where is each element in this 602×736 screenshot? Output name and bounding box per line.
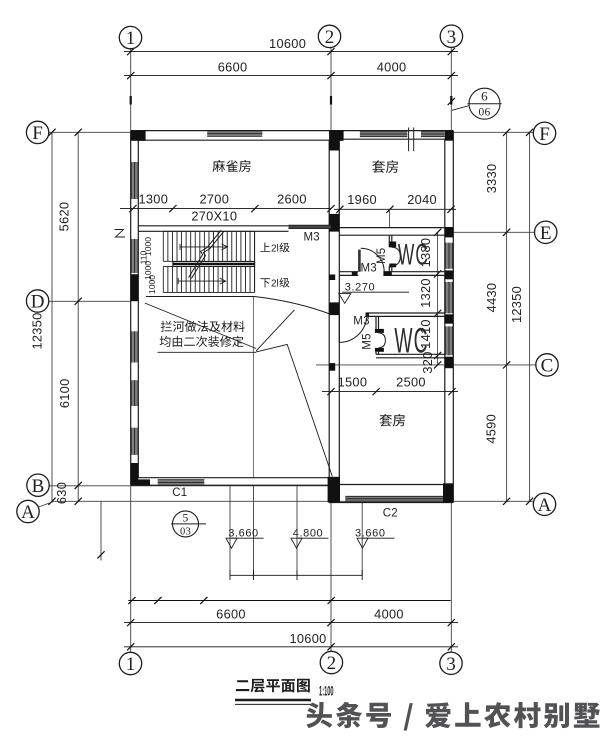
svg-text:3.270: 3.270 (345, 281, 376, 293)
svg-text:1:100: 1:100 (319, 685, 334, 699)
tick dash grid3 (450, 96, 452, 105)
E wall (339, 227, 445, 229)
stair upper flight treads (163, 231, 254, 261)
bottom dim line 6600/4000 (124, 622, 458, 624)
svg-text:10600: 10600 (289, 631, 326, 646)
bubble 2 top (318, 25, 340, 47)
corridor top wall (339, 271, 358, 273)
pier left wall bottom corner (131, 463, 139, 485)
svg-text:2500: 2500 (396, 374, 426, 389)
window left wall terrace 3 (131, 428, 138, 455)
svg-text:5620: 5620 (57, 202, 72, 232)
svg-text:C2: C2 (383, 508, 398, 520)
title text (236, 679, 310, 693)
label suite bottom (380, 414, 405, 427)
svg-text:2l: 2l (271, 244, 279, 255)
svg-text:1960: 1960 (347, 192, 377, 207)
svg-text:2040: 2040 (407, 192, 437, 207)
svg-text:B: B (32, 476, 45, 497)
top wall inner line left section (138, 139, 329, 141)
left wall inner line (137, 140, 139, 478)
grid line 1 vertical bottom (130, 486, 132, 653)
door M3 wc1 leaf (358, 250, 361, 272)
window left wall mahjong (131, 162, 138, 199)
detail circle 5/03 (173, 511, 199, 537)
door M5 wc2 arcs (379, 333, 386, 341)
pier line2 at corridor (329, 302, 339, 315)
pier right wall mid2 (445, 314, 454, 323)
inner dim slashes x437.6 (434, 229, 441, 236)
bottom wall right section outer (329, 502, 453, 504)
svg-text:6600: 6600 (216, 606, 246, 621)
window top wall mahjong room (207, 131, 262, 137)
stair bottom edges (163, 265, 254, 267)
window right wall wc1 (445, 243, 452, 269)
extension x297 below plan (296, 485, 298, 575)
svg-text:4000: 4000 (377, 60, 407, 75)
right dim line x529.6 (529, 132, 531, 501)
flue pipe lines at top wall (408, 128, 410, 152)
svg-text:1320: 1320 (418, 278, 433, 308)
svg-text:1500: 1500 (338, 374, 368, 389)
left wall outer line (130, 131, 132, 486)
stair break line (189, 230, 222, 277)
right wall outer line (452, 131, 454, 503)
bubble F right (533, 122, 555, 144)
bottom tick line y575 (230, 574, 363, 576)
bubble 1 bottom (119, 652, 141, 674)
door M5 wc1 arcs (392, 247, 401, 256)
left dim slashes x78 (75, 129, 82, 136)
bubble 3 top (440, 25, 462, 47)
bubble E right (535, 221, 557, 243)
svg-text:M3: M3 (353, 315, 369, 327)
pier right wall mid1 (445, 270, 454, 279)
pier line2 mid1 (329, 275, 335, 281)
note text line1 (161, 321, 245, 332)
stair bottom line (146, 296, 255, 298)
bubble D left (26, 290, 48, 312)
pier top line2 corner (329, 131, 343, 141)
row C line (316, 364, 536, 366)
svg-text:03: 03 (180, 527, 191, 538)
svg-text:2700: 2700 (199, 191, 229, 206)
pier line2 at C (329, 363, 335, 371)
bottom wall left section outer (131, 484, 340, 486)
svg-text:M3: M3 (361, 262, 377, 274)
svg-text:10600: 10600 (269, 36, 306, 51)
bubble A left (17, 500, 39, 522)
pier line2 bottom corner (328, 477, 340, 503)
bottom wall right section top (339, 484, 445, 486)
svg-text:3.660: 3.660 (228, 528, 259, 540)
detail circle 6/06 (469, 88, 500, 119)
tick dash grid2 (330, 96, 332, 105)
grid line 3 vertical bottom (450, 503, 452, 652)
svg-text:4590: 4590 (484, 414, 499, 444)
stair up arrow (180, 246, 227, 248)
line2 wall west face (328, 140, 330, 478)
title underline thick (235, 699, 311, 702)
tick dash grid1 (130, 96, 132, 105)
bubble B left (27, 474, 49, 496)
left dim line x52 (51, 132, 53, 501)
left porch line x101 (100, 501, 102, 560)
svg-text:4.800: 4.800 (293, 528, 324, 540)
svg-text:F: F (32, 123, 43, 144)
grid line 3 vertical top (450, 48, 452, 131)
svg-text:4430: 4430 (484, 283, 499, 313)
title underline thin (235, 703, 312, 705)
svg-text:A: A (21, 502, 35, 523)
svg-text:1: 1 (126, 654, 136, 675)
grid line 2 vertical top (330, 48, 332, 131)
svg-text:M5: M5 (361, 333, 373, 349)
top wall outer line (131, 130, 454, 132)
bubble C right (536, 354, 558, 376)
pier left wall at D (131, 274, 139, 301)
window right wall wc2 (445, 326, 452, 355)
window C1 (158, 480, 205, 485)
svg-text:6: 6 (481, 89, 488, 104)
corridor bottom wall stub (366, 313, 370, 317)
bottom wall left section inner (138, 477, 329, 479)
right dim line x506.6 (506, 132, 508, 501)
row A line (54, 500, 533, 502)
extension x362 below plan (361, 503, 363, 576)
top dim line 6600/4000 (124, 75, 458, 77)
svg-text:270X10: 270X10 (191, 208, 237, 223)
window left wall terrace 1 (131, 331, 138, 362)
stair north wall (138, 225, 288, 227)
pier right wall at C (445, 357, 454, 369)
svg-text:12350: 12350 (509, 286, 524, 323)
stair label down 21 (260, 278, 270, 287)
door M5 wc2 blocks (375, 329, 384, 333)
note leader from stair corner (145, 303, 256, 349)
svg-text:2600: 2600 (277, 191, 307, 206)
window left wall terrace 2 (131, 380, 138, 406)
bottom dim line 10600 (124, 646, 458, 648)
note text line2 (160, 336, 244, 347)
svg-text:2: 2 (327, 653, 337, 674)
svg-text:3: 3 (446, 654, 456, 675)
right wall inner line (444, 139, 446, 484)
stair top edge (163, 230, 254, 232)
grid line 2 vertical bottom (330, 503, 332, 652)
line2 wall east face (338, 139, 340, 484)
right dim slashes x529.6 (526, 129, 533, 136)
grid line 1 vertical top (130, 49, 132, 131)
porch tick bottom left (97, 551, 104, 558)
corridor top wall black stub (352, 272, 358, 276)
inner dim line x437.6 (437, 232, 439, 365)
svg-text:C: C (541, 355, 554, 376)
stair lower flight treads (163, 266, 254, 292)
interior dim line 1960/2040 (334, 208, 456, 210)
svg-text:06: 06 (478, 107, 490, 119)
svg-text:1: 1 (126, 28, 136, 49)
door M5 wc1 blocks (389, 242, 396, 248)
bubble 1 top (119, 26, 141, 48)
window top wall suite 1 (360, 131, 407, 137)
wc1 west wall (388, 235, 390, 247)
row D line left (49, 300, 131, 302)
svg-text:3330: 3330 (484, 164, 499, 194)
bubble 3 bottom (440, 652, 462, 674)
watermark (306, 702, 599, 731)
row F line right (453, 131, 533, 133)
extension x253.5 below plan (253, 485, 255, 575)
bubble A right (533, 493, 555, 515)
label suite top (372, 160, 398, 173)
wc2 west wall (375, 316, 377, 329)
interior dim line 1500/2500 (322, 391, 458, 393)
svg-text:M3: M3 (304, 232, 320, 244)
svg-text:2l: 2l (271, 279, 279, 290)
right dim slashes x506.6 (503, 129, 510, 136)
window right wall corridor (445, 282, 452, 313)
pier line2 at E (329, 214, 339, 232)
corridor bottom wall (367, 312, 445, 314)
row E line right (453, 231, 534, 233)
note leader to curve (256, 310, 294, 351)
svg-text:F: F (539, 124, 550, 145)
extension line x389.6 (389, 209, 391, 227)
interior dim line 1300/2700/2600 (120, 208, 331, 210)
top dim line 10600 (124, 51, 458, 53)
svg-text:A: A (538, 495, 552, 516)
svg-text:1300: 1300 (138, 191, 168, 206)
bottom aux dim line (128, 600, 450, 602)
bubble 2 bottom (320, 651, 342, 673)
svg-text:630: 630 (54, 482, 69, 504)
left dim slashes x52 (48, 129, 55, 136)
row F line left (49, 131, 131, 133)
label mahjong room (213, 160, 251, 172)
terrace division line (253, 297, 255, 478)
bubble F left (26, 121, 48, 143)
svg-text:5: 5 (182, 513, 188, 525)
window top wall suite 2 (421, 131, 445, 137)
pier top-right corner (445, 131, 454, 141)
stair down arrow (178, 280, 225, 282)
door M3 corridor arc (339, 315, 367, 343)
svg-text:12350: 12350 (29, 312, 44, 349)
extension x230 below plan (229, 485, 231, 575)
note leader to corner (256, 344, 332, 476)
svg-text:WC: WC (394, 320, 428, 360)
door M3 corridor leaf (338, 315, 340, 343)
svg-text:3: 3 (447, 27, 457, 48)
terrace railing curve (255, 297, 332, 315)
window left wall stair (131, 239, 138, 273)
svg-text:6100: 6100 (57, 378, 72, 408)
top wall inner line right section (339, 138, 445, 140)
wc2 south wall (376, 353, 445, 355)
note underline (158, 351, 257, 353)
svg-text:3.660: 3.660 (355, 528, 386, 540)
svg-text:1000: 1000 (147, 275, 157, 294)
stair mid rail (173, 262, 255, 267)
svg-text:6600: 6600 (218, 60, 248, 75)
door M3 wc1 arc (361, 248, 385, 272)
sliding door M3 top (289, 225, 332, 228)
stair right edge (254, 231, 256, 292)
svg-text:WC: WC (398, 239, 429, 272)
svg-text:D: D (31, 292, 45, 313)
stair label up 21 (260, 243, 270, 252)
pier top-left corner (131, 131, 146, 141)
svg-text:C1: C1 (172, 487, 187, 499)
svg-text:E: E (540, 223, 552, 244)
break symbol left wall (115, 230, 126, 238)
pier right wall at E (445, 227, 454, 237)
svg-text:4000: 4000 (374, 606, 404, 621)
row B line left (49, 485, 331, 487)
left dim line x78 (77, 132, 79, 501)
svg-text:2: 2 (325, 27, 335, 48)
pier right wall bottom corner (443, 483, 453, 502)
window C2 (345, 496, 443, 501)
